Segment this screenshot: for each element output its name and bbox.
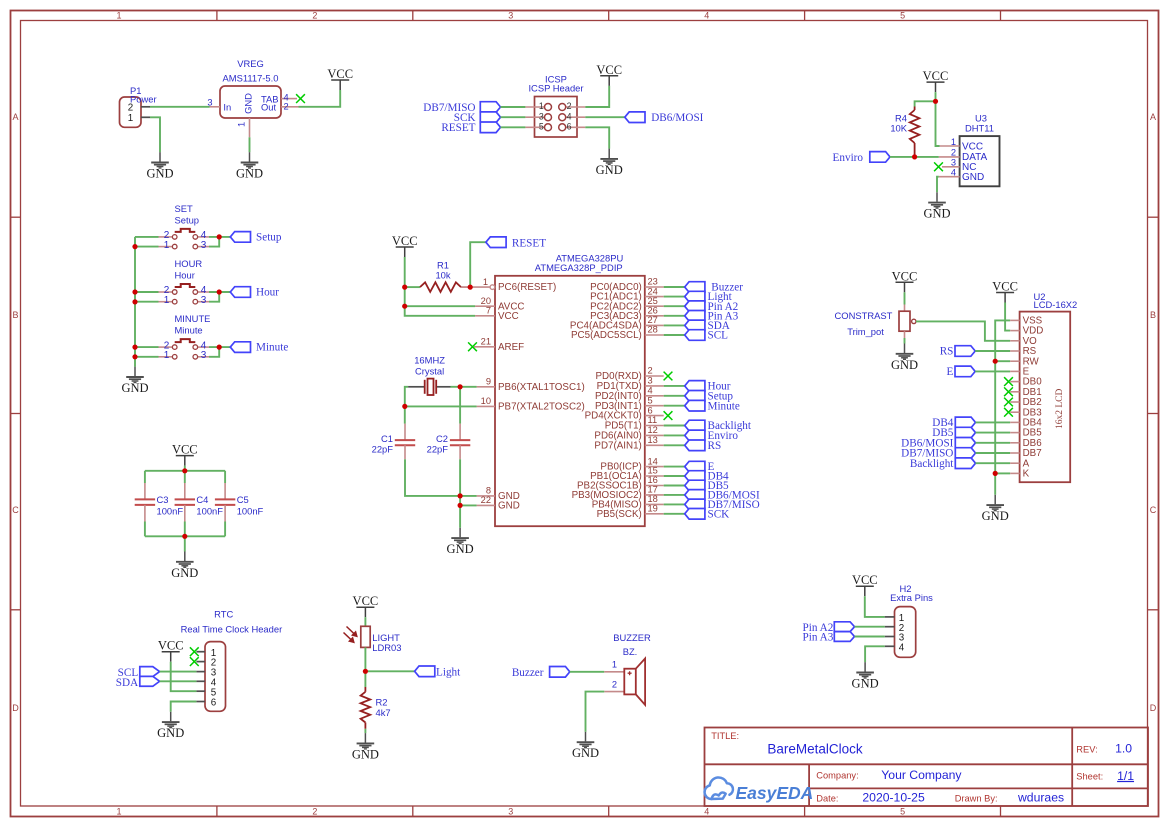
svg-text:CONSTRAST: CONSTRAST bbox=[835, 310, 893, 321]
junction dot bus bbox=[132, 345, 137, 350]
wire ICSP pin6 to GND bbox=[585, 127, 609, 148]
wire RESET up from pin1 bbox=[470, 242, 486, 287]
pin 4 GND (DHT11) bbox=[939, 176, 960, 178]
svg-text:PB7(XTAL2TOSC2): PB7(XTAL2TOSC2) bbox=[498, 402, 585, 413]
svg-text:GND: GND bbox=[146, 167, 173, 181]
pin 6 (RTC) bbox=[196, 701, 205, 703]
wire Pin A3 to H2 pin3 bbox=[855, 636, 885, 638]
MCU U1 ATMEGA328PU (ATMEGA328P_PDIP) bbox=[495, 252, 645, 526]
wire PC3(ADC3) to net Pin A3 bbox=[664, 315, 685, 317]
ground GND (VREG) bbox=[236, 152, 263, 180]
svg-text:2: 2 bbox=[312, 11, 317, 21]
svg-text:GND: GND bbox=[121, 381, 148, 395]
wire crystal left to PB6 bus bbox=[405, 387, 408, 424]
wire LDR to Light node bbox=[364, 647, 366, 671]
resistor R4 10K bbox=[890, 107, 919, 157]
junction dot bus bbox=[132, 289, 137, 294]
svg-text:LDR03: LDR03 bbox=[372, 642, 401, 653]
ground GND (MCU) bbox=[447, 528, 474, 556]
ground GND (ICSP) bbox=[596, 149, 623, 177]
wire K to GND bus bbox=[995, 472, 1010, 474]
net flag Pin A2 bbox=[685, 301, 739, 313]
wire PB3(MOSIOC2) to net DB6/MOSI bbox=[664, 494, 685, 496]
net flag Pin A2 (H2) bbox=[803, 622, 855, 634]
wire VREG GND to ground bbox=[249, 137, 251, 152]
pushbutton HOUR Hour bbox=[159, 258, 210, 306]
power VCC (trimpot) bbox=[892, 269, 918, 292]
wire PC5(ADC5SCL) to net SCL bbox=[664, 334, 685, 336]
ground GND (P1) bbox=[146, 152, 173, 180]
pin 8 GND bbox=[477, 486, 520, 502]
wire P1 pin1 to GND bbox=[150, 117, 160, 152]
pin 26 PC3(ADC3) bbox=[590, 306, 664, 322]
svg-text:Sheet:: Sheet: bbox=[1076, 772, 1103, 782]
pin 3 NC (DHT11) bbox=[942, 166, 960, 168]
wire Enviro to DHT11 DATA bbox=[890, 156, 939, 158]
pin 4 PD2(INT0) bbox=[595, 386, 664, 402]
pin 7 VCC bbox=[475, 306, 519, 322]
pin 7 DB0 (LCD) bbox=[1010, 381, 1019, 383]
svg-text:28: 28 bbox=[648, 325, 658, 335]
pin 5 RW (LCD) bbox=[1010, 360, 1019, 362]
svg-text:26: 26 bbox=[648, 306, 658, 316]
svg-text:Out: Out bbox=[261, 102, 277, 113]
svg-text:Hour: Hour bbox=[256, 287, 279, 299]
buzzer BZ BUZZER bbox=[604, 632, 651, 705]
pin 15 PB1(OC1A) bbox=[590, 466, 664, 482]
no-connect X on RTC pin1 bbox=[190, 647, 199, 656]
svg-text:Trim_pot: Trim_pot bbox=[847, 326, 884, 337]
svg-text:ICSP Header: ICSP Header bbox=[528, 83, 583, 94]
wire Light node to flag bbox=[365, 670, 414, 672]
svg-text:5: 5 bbox=[900, 807, 905, 817]
svg-text:4: 4 bbox=[567, 111, 572, 121]
wire PD5(T1) to net Backlight bbox=[664, 425, 685, 427]
no-connect X on VREG TAB bbox=[296, 94, 305, 103]
wire SCL to RTC pin3 bbox=[160, 671, 197, 673]
pin 13 DB6 (LCD) bbox=[1010, 442, 1019, 444]
svg-text:VREG: VREG bbox=[237, 58, 264, 69]
pin 16 PB2(SSOC1B) bbox=[577, 475, 664, 491]
net flag DB5 (LCD) bbox=[932, 427, 975, 439]
ground GND (trimpot) bbox=[891, 344, 918, 372]
svg-text:VCC: VCC bbox=[923, 69, 949, 83]
pin 3 In stub bbox=[210, 106, 221, 108]
net flag RS bbox=[685, 440, 721, 452]
wire SCK to ICSP pin3 bbox=[501, 116, 526, 118]
svg-text:1: 1 bbox=[483, 277, 488, 287]
svg-text:Enviro: Enviro bbox=[833, 152, 864, 164]
wire PD7(AIN1) to net RS bbox=[664, 444, 685, 446]
power VCC (decoupling) bbox=[172, 443, 198, 466]
net flag Enviro bbox=[685, 430, 739, 442]
wires SET right pins join bbox=[209, 236, 230, 238]
svg-text:R2: R2 bbox=[376, 696, 388, 707]
svg-text:GND: GND bbox=[447, 542, 474, 556]
wire PC4(ADC4SDA) to net SDA bbox=[664, 324, 685, 326]
svg-text:In: In bbox=[223, 102, 231, 113]
wire Pin A2 to H2 pin2 bbox=[855, 626, 885, 628]
pin 20 AVCC bbox=[475, 296, 524, 312]
svg-text:1: 1 bbox=[951, 137, 956, 147]
svg-text:D: D bbox=[12, 703, 19, 713]
wire cap bottom rail bbox=[145, 535, 225, 537]
resistor R2 4k7 bbox=[361, 671, 391, 729]
no-connect X on LCD data pin bbox=[1004, 398, 1013, 407]
svg-text:VCC: VCC bbox=[158, 639, 184, 653]
svg-text:3: 3 bbox=[201, 295, 207, 306]
pin 11 PD5(T1) bbox=[605, 415, 664, 431]
net flag Enviro bbox=[833, 152, 890, 164]
svg-text:A: A bbox=[1150, 112, 1156, 122]
svg-text:AMS1117-5.0: AMS1117-5.0 bbox=[223, 73, 279, 84]
svg-text:DB6/MOSI: DB6/MOSI bbox=[651, 112, 703, 124]
svg-text:GND: GND bbox=[852, 677, 879, 691]
wire GND pin8 bbox=[460, 495, 477, 497]
no-connect X on LCD data pin bbox=[1004, 377, 1013, 386]
power VCC (LCD) bbox=[992, 280, 1018, 303]
svg-text:GND: GND bbox=[157, 726, 184, 740]
svg-text:D: D bbox=[1150, 703, 1157, 713]
net flag SCL bbox=[685, 330, 728, 342]
sensor U3 DHT11 bbox=[939, 113, 1000, 187]
svg-text:SCK: SCK bbox=[708, 508, 730, 520]
pin 5 PD3(INT1) bbox=[595, 395, 664, 411]
photoresistor LIGHT LDR03 bbox=[344, 626, 402, 653]
junction dot R4/Enviro/DATA bbox=[912, 154, 917, 159]
wire P1 pin2 to VREG In bbox=[150, 106, 210, 108]
pin 4 TAB stub bbox=[281, 98, 297, 100]
wire crystal right to PB6 pin bbox=[451, 386, 477, 388]
wire C1 bottom to GND rail bbox=[405, 459, 460, 496]
wires MINUTE right pins join bbox=[209, 346, 230, 348]
svg-text:1: 1 bbox=[164, 240, 170, 251]
wire VCC to cap rail bbox=[184, 466, 186, 471]
junction dot crystal/C2 bbox=[458, 384, 463, 389]
net flag DB7/MISO bbox=[685, 499, 760, 511]
net flag DB7/MISO (LCD) bbox=[901, 448, 975, 460]
wire cap top rail bbox=[145, 470, 225, 472]
net flag DB4 bbox=[685, 471, 729, 483]
svg-text:Minute: Minute bbox=[175, 325, 203, 336]
svg-text:GND: GND bbox=[962, 172, 984, 183]
svg-text:VCC: VCC bbox=[392, 234, 418, 248]
resistor R1 10k bbox=[405, 259, 471, 292]
pin 2 Out stub bbox=[281, 106, 299, 108]
svg-text:B: B bbox=[12, 310, 18, 320]
svg-text:Your Company: Your Company bbox=[881, 768, 962, 782]
net flag Backlight (LCD) bbox=[910, 458, 976, 470]
power VCC (DHT11) bbox=[923, 69, 949, 92]
wire Backlight flag to LCD bbox=[976, 462, 1011, 464]
ground GND (H2) bbox=[852, 662, 879, 690]
net flag SDA bbox=[685, 320, 730, 332]
wire DB7/MISO to ICSP pin1 bbox=[501, 106, 526, 108]
pin 10 DB3 (LCD) bbox=[1010, 411, 1019, 413]
svg-text:GND: GND bbox=[923, 207, 950, 221]
svg-text:1: 1 bbox=[164, 350, 170, 361]
wire PD3(INT1) to net Minute bbox=[664, 405, 685, 407]
pin 2 (RTC) bbox=[196, 661, 205, 663]
svg-text:HOUR: HOUR bbox=[175, 258, 203, 269]
capacitor C3 100nF bbox=[135, 471, 184, 537]
wire BZ pin2 to GND bbox=[586, 692, 605, 732]
pin 9 DB2 (LCD) bbox=[1010, 401, 1019, 403]
svg-text:10: 10 bbox=[481, 396, 491, 406]
wire DB4 flag to LCD bbox=[976, 421, 1011, 423]
wire VCC to LDR bbox=[364, 617, 366, 626]
wire PB7 to C1 bus bbox=[405, 405, 477, 407]
pin 2 PD0(RXD) bbox=[596, 366, 664, 382]
wires MINUTE left pins to bus bbox=[135, 346, 159, 348]
power VCC (H2) bbox=[852, 573, 878, 596]
pin 28 PC5(ADC5SCL) bbox=[571, 325, 664, 341]
pin 18 PB4(MISO) bbox=[592, 494, 664, 510]
wire DHT11 GND to ground bbox=[937, 177, 939, 193]
wire trimpot to GND bbox=[904, 338, 906, 344]
wire E flag to LCD bbox=[975, 370, 1010, 372]
svg-text:C1: C1 bbox=[381, 433, 393, 444]
svg-text:VCC: VCC bbox=[498, 311, 519, 322]
junction dot PB7/C1 bbox=[402, 404, 407, 409]
pin 16 K (LCD) bbox=[1010, 472, 1019, 474]
wire ICSP pin4 to DB6/MOSI bbox=[585, 116, 625, 118]
net flag SCK bbox=[685, 508, 730, 520]
svg-text:VCC: VCC bbox=[892, 269, 918, 283]
svg-text:2: 2 bbox=[648, 366, 653, 376]
svg-text:100nF: 100nF bbox=[157, 506, 184, 517]
svg-text:VCC: VCC bbox=[172, 443, 198, 457]
wire PD1(TXD) to net Hour bbox=[664, 385, 685, 387]
svg-text:Crystal: Crystal bbox=[415, 365, 444, 376]
power VCC (RTC) bbox=[158, 639, 184, 662]
wire button ground bus bbox=[134, 237, 136, 367]
svg-text:EasyEDA: EasyEDA bbox=[736, 783, 814, 803]
ground GND (decoupling) bbox=[171, 552, 198, 580]
pin 3 PD1(TXD) bbox=[597, 376, 664, 392]
svg-text:LCD-16X2: LCD-16X2 bbox=[1034, 299, 1078, 310]
pin 17 PB3(MOSIOC2) bbox=[572, 485, 664, 501]
svg-text:wduraes: wduraes bbox=[1017, 790, 1064, 804]
svg-text:2: 2 bbox=[284, 101, 289, 111]
svg-text:VCC: VCC bbox=[992, 280, 1018, 294]
header H2 Extra Pins bbox=[885, 583, 933, 657]
header RTC Real Time Clock Header bbox=[181, 609, 283, 712]
net flag Pin A3 bbox=[685, 310, 739, 322]
pin 4 (H2) bbox=[885, 645, 895, 647]
junction dot bus bbox=[132, 244, 137, 249]
pin 22 GND bbox=[477, 495, 520, 511]
voltage regulator VREG AMS1117-5.0 bbox=[207, 58, 298, 137]
junction dot K bbox=[993, 471, 998, 476]
svg-text:AREF: AREF bbox=[498, 342, 524, 353]
svg-text:16x2 LCD: 16x2 LCD bbox=[1055, 388, 1065, 429]
capacitor C5 100nF bbox=[215, 471, 264, 537]
wire RW to GND bus bbox=[995, 360, 1010, 362]
pushbutton MINUTE Minute bbox=[159, 313, 211, 361]
svg-text:22: 22 bbox=[481, 495, 491, 505]
no-connect X on PD4(XCKT0) bbox=[664, 411, 673, 420]
svg-text:REV:: REV: bbox=[1076, 744, 1097, 754]
header ICSP bbox=[525, 74, 585, 138]
svg-text:6: 6 bbox=[211, 698, 217, 709]
svg-text:RESET: RESET bbox=[512, 237, 546, 249]
wire PB2(SSOC1B) to net DB5 bbox=[664, 485, 685, 487]
wire RS flag to LCD bbox=[975, 350, 1010, 352]
svg-text:Real Time Clock Header: Real Time Clock Header bbox=[181, 624, 283, 635]
pin 6 E (LCD) bbox=[1010, 370, 1019, 372]
pin 24 PC1(ADC1) bbox=[590, 286, 664, 302]
power VCC (LDR) bbox=[353, 594, 379, 617]
ground GND (R2) bbox=[352, 733, 379, 761]
svg-text:Backlight: Backlight bbox=[910, 458, 954, 470]
pin 9 PB6(XTAL1TOSC1) bbox=[477, 377, 585, 393]
wire VCC down to pins bbox=[405, 257, 475, 316]
svg-text:SCL: SCL bbox=[708, 330, 729, 342]
junction dot SET right bbox=[217, 234, 222, 239]
wire PB5(SCK) to net SCK bbox=[664, 513, 685, 515]
svg-text:21: 21 bbox=[481, 337, 491, 347]
net flag E (LCD) bbox=[947, 366, 976, 378]
svg-text:Company:: Company: bbox=[816, 771, 858, 781]
svg-text:1/1: 1/1 bbox=[1117, 769, 1134, 783]
no-connect X on LCD data pin bbox=[1004, 387, 1013, 396]
junction dot VCC/R4 bbox=[933, 99, 938, 104]
ground GND (DHT11) bbox=[923, 192, 950, 220]
svg-text:PC6(RESET): PC6(RESET) bbox=[498, 282, 556, 293]
svg-text:17: 17 bbox=[648, 485, 658, 495]
LCD module U2 LCD-16X2 bbox=[1010, 291, 1077, 482]
svg-text:23: 23 bbox=[648, 277, 658, 287]
svg-text:Drawn By:: Drawn By: bbox=[955, 794, 998, 804]
pin 1 (RTC) bbox=[196, 651, 205, 653]
pin 11 DB4 (LCD) bbox=[1010, 421, 1019, 423]
svg-text:4: 4 bbox=[648, 386, 653, 396]
net flag Buzzer bbox=[512, 667, 570, 679]
wire PB1(OC1A) to net DB4 bbox=[664, 475, 685, 477]
pin 12 PD6(AIN0) bbox=[594, 425, 663, 441]
svg-text:RESET: RESET bbox=[441, 122, 475, 134]
svg-text:10k: 10k bbox=[435, 269, 450, 280]
svg-text:RS: RS bbox=[940, 346, 954, 358]
ground GND (RTC) bbox=[157, 712, 184, 740]
pin 14 DB7 (LCD) bbox=[1010, 452, 1019, 454]
junction dot bus bbox=[132, 299, 137, 304]
net flag Minute bbox=[685, 400, 740, 412]
wire VCC to RTC pin5 bbox=[171, 662, 197, 692]
svg-text:SDA: SDA bbox=[116, 677, 138, 689]
net flag RESET (ICSP) bbox=[441, 122, 500, 134]
svg-text:1: 1 bbox=[116, 807, 121, 817]
junction dot GND8 bbox=[458, 493, 463, 498]
svg-text:C3: C3 bbox=[157, 494, 169, 505]
connector P1 Power bbox=[120, 85, 157, 127]
svg-text:ATMEGA328P_PDIP: ATMEGA328P_PDIP bbox=[535, 262, 623, 273]
net flag Pin A3 (H2) bbox=[803, 632, 855, 644]
wire VCC to LCD VDD bbox=[1005, 303, 1010, 331]
svg-text:1: 1 bbox=[237, 122, 247, 127]
svg-text:K: K bbox=[1023, 469, 1030, 480]
power VCC (VREG out) bbox=[327, 67, 353, 90]
pin 4 RS (LCD) bbox=[1010, 350, 1019, 352]
power VCC (MCU) bbox=[392, 234, 418, 257]
wire PD2(INT0) to net Setup bbox=[664, 395, 685, 397]
wire Buzzer to BZ pin1 bbox=[570, 671, 605, 673]
svg-text:C: C bbox=[1150, 505, 1157, 515]
svg-text:RS: RS bbox=[708, 440, 722, 452]
net flag Setup bbox=[230, 232, 282, 244]
wire DB5 flag to LCD bbox=[976, 432, 1011, 434]
svg-text:Setup: Setup bbox=[175, 214, 200, 225]
wire PC2(ADC2) to net Pin A2 bbox=[664, 305, 685, 307]
wires SET left pins to bus bbox=[135, 236, 159, 238]
net flag Hour bbox=[685, 381, 731, 393]
svg-text:10K: 10K bbox=[890, 122, 907, 133]
svg-text:A: A bbox=[12, 112, 18, 122]
pin 12 DB5 (LCD) bbox=[1010, 432, 1019, 434]
net flag Minute bbox=[230, 342, 288, 354]
pin 8 DB1 (LCD) bbox=[1010, 391, 1019, 393]
svg-text:MINUTE: MINUTE bbox=[175, 313, 211, 324]
ground GND (buttons) bbox=[121, 367, 148, 395]
svg-text:B: B bbox=[1150, 310, 1156, 320]
crystal 16MHZ bbox=[408, 354, 450, 395]
svg-text:16MHZ: 16MHZ bbox=[414, 354, 445, 365]
net flag SCK bbox=[454, 112, 501, 124]
wire H2 pin4 to GND bbox=[865, 646, 885, 662]
junction dot GND22 bbox=[458, 503, 463, 508]
net flag E bbox=[685, 461, 715, 473]
junction dot AVCC bbox=[402, 304, 407, 309]
net flag SCL (RTC) bbox=[118, 667, 160, 679]
svg-text:GND: GND bbox=[572, 746, 599, 760]
svg-text:4k7: 4k7 bbox=[376, 707, 391, 718]
svg-text:13: 13 bbox=[648, 435, 658, 445]
power VCC (ICSP) bbox=[596, 63, 622, 86]
svg-text:GND: GND bbox=[891, 358, 918, 372]
svg-text:BZ.: BZ. bbox=[623, 646, 638, 657]
wire VREG Out to VCC bbox=[299, 90, 341, 107]
ground GND (LCD) bbox=[982, 495, 1009, 523]
svg-text:5: 5 bbox=[900, 11, 905, 21]
svg-text:3: 3 bbox=[201, 240, 207, 251]
svg-text:TITLE:: TITLE: bbox=[711, 731, 739, 741]
junction dot VCC/R1 bbox=[402, 285, 407, 290]
svg-text:7: 7 bbox=[486, 306, 491, 316]
svg-text:3: 3 bbox=[201, 350, 207, 361]
pin 5 (RTC) bbox=[196, 690, 205, 692]
pin 10 PB7(XTAL2TOSC2) bbox=[477, 396, 585, 412]
svg-text:22pF: 22pF bbox=[372, 444, 394, 455]
svg-text:GND: GND bbox=[243, 93, 254, 114]
net flag Backlight bbox=[685, 420, 752, 432]
pin 4 (RTC) bbox=[196, 680, 205, 682]
junction dot bottom rail bbox=[182, 534, 187, 539]
capacitor C1 22pF bbox=[372, 424, 416, 460]
svg-text:20: 20 bbox=[481, 296, 491, 306]
svg-text:3: 3 bbox=[207, 98, 212, 108]
svg-text:5: 5 bbox=[648, 395, 653, 405]
pin 14 PB0(ICP) bbox=[600, 456, 663, 472]
svg-text:BUZZER: BUZZER bbox=[613, 632, 651, 643]
svg-text:15: 15 bbox=[648, 466, 658, 476]
svg-text:3: 3 bbox=[508, 11, 513, 21]
svg-text:VCC: VCC bbox=[353, 594, 379, 608]
ground GND (buzzer) bbox=[572, 732, 599, 760]
svg-text:Extra Pins: Extra Pins bbox=[890, 592, 933, 603]
svg-text:24: 24 bbox=[648, 286, 658, 296]
svg-text:8: 8 bbox=[486, 486, 491, 496]
